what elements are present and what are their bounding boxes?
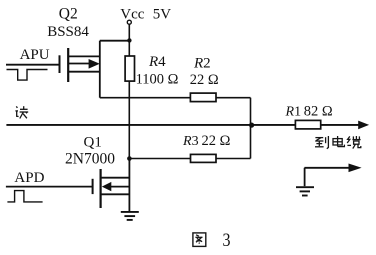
svg-text:5V: 5V: [153, 7, 172, 23]
svg-text:22 Ω: 22 Ω: [190, 72, 219, 88]
svg-text:R3: R3: [182, 134, 199, 149]
svg-text:R4: R4: [148, 54, 166, 70]
svg-text:Vcc: Vcc: [120, 7, 144, 23]
svg-text:R1: R1: [285, 105, 302, 120]
svg-text:BSS84: BSS84: [47, 24, 89, 40]
svg-text:APD: APD: [14, 170, 44, 186]
svg-text:3: 3: [223, 230, 231, 251]
svg-text:1100 Ω: 1100 Ω: [136, 72, 179, 88]
svg-text:22 Ω: 22 Ω: [202, 133, 231, 149]
svg-text:APU: APU: [20, 47, 50, 63]
svg-text:R2: R2: [193, 56, 211, 72]
svg-text:Q1: Q1: [84, 134, 102, 150]
svg-text:Q2: Q2: [59, 6, 78, 23]
svg-text:2N7000: 2N7000: [65, 151, 115, 168]
svg-text:82 Ω: 82 Ω: [304, 104, 333, 120]
